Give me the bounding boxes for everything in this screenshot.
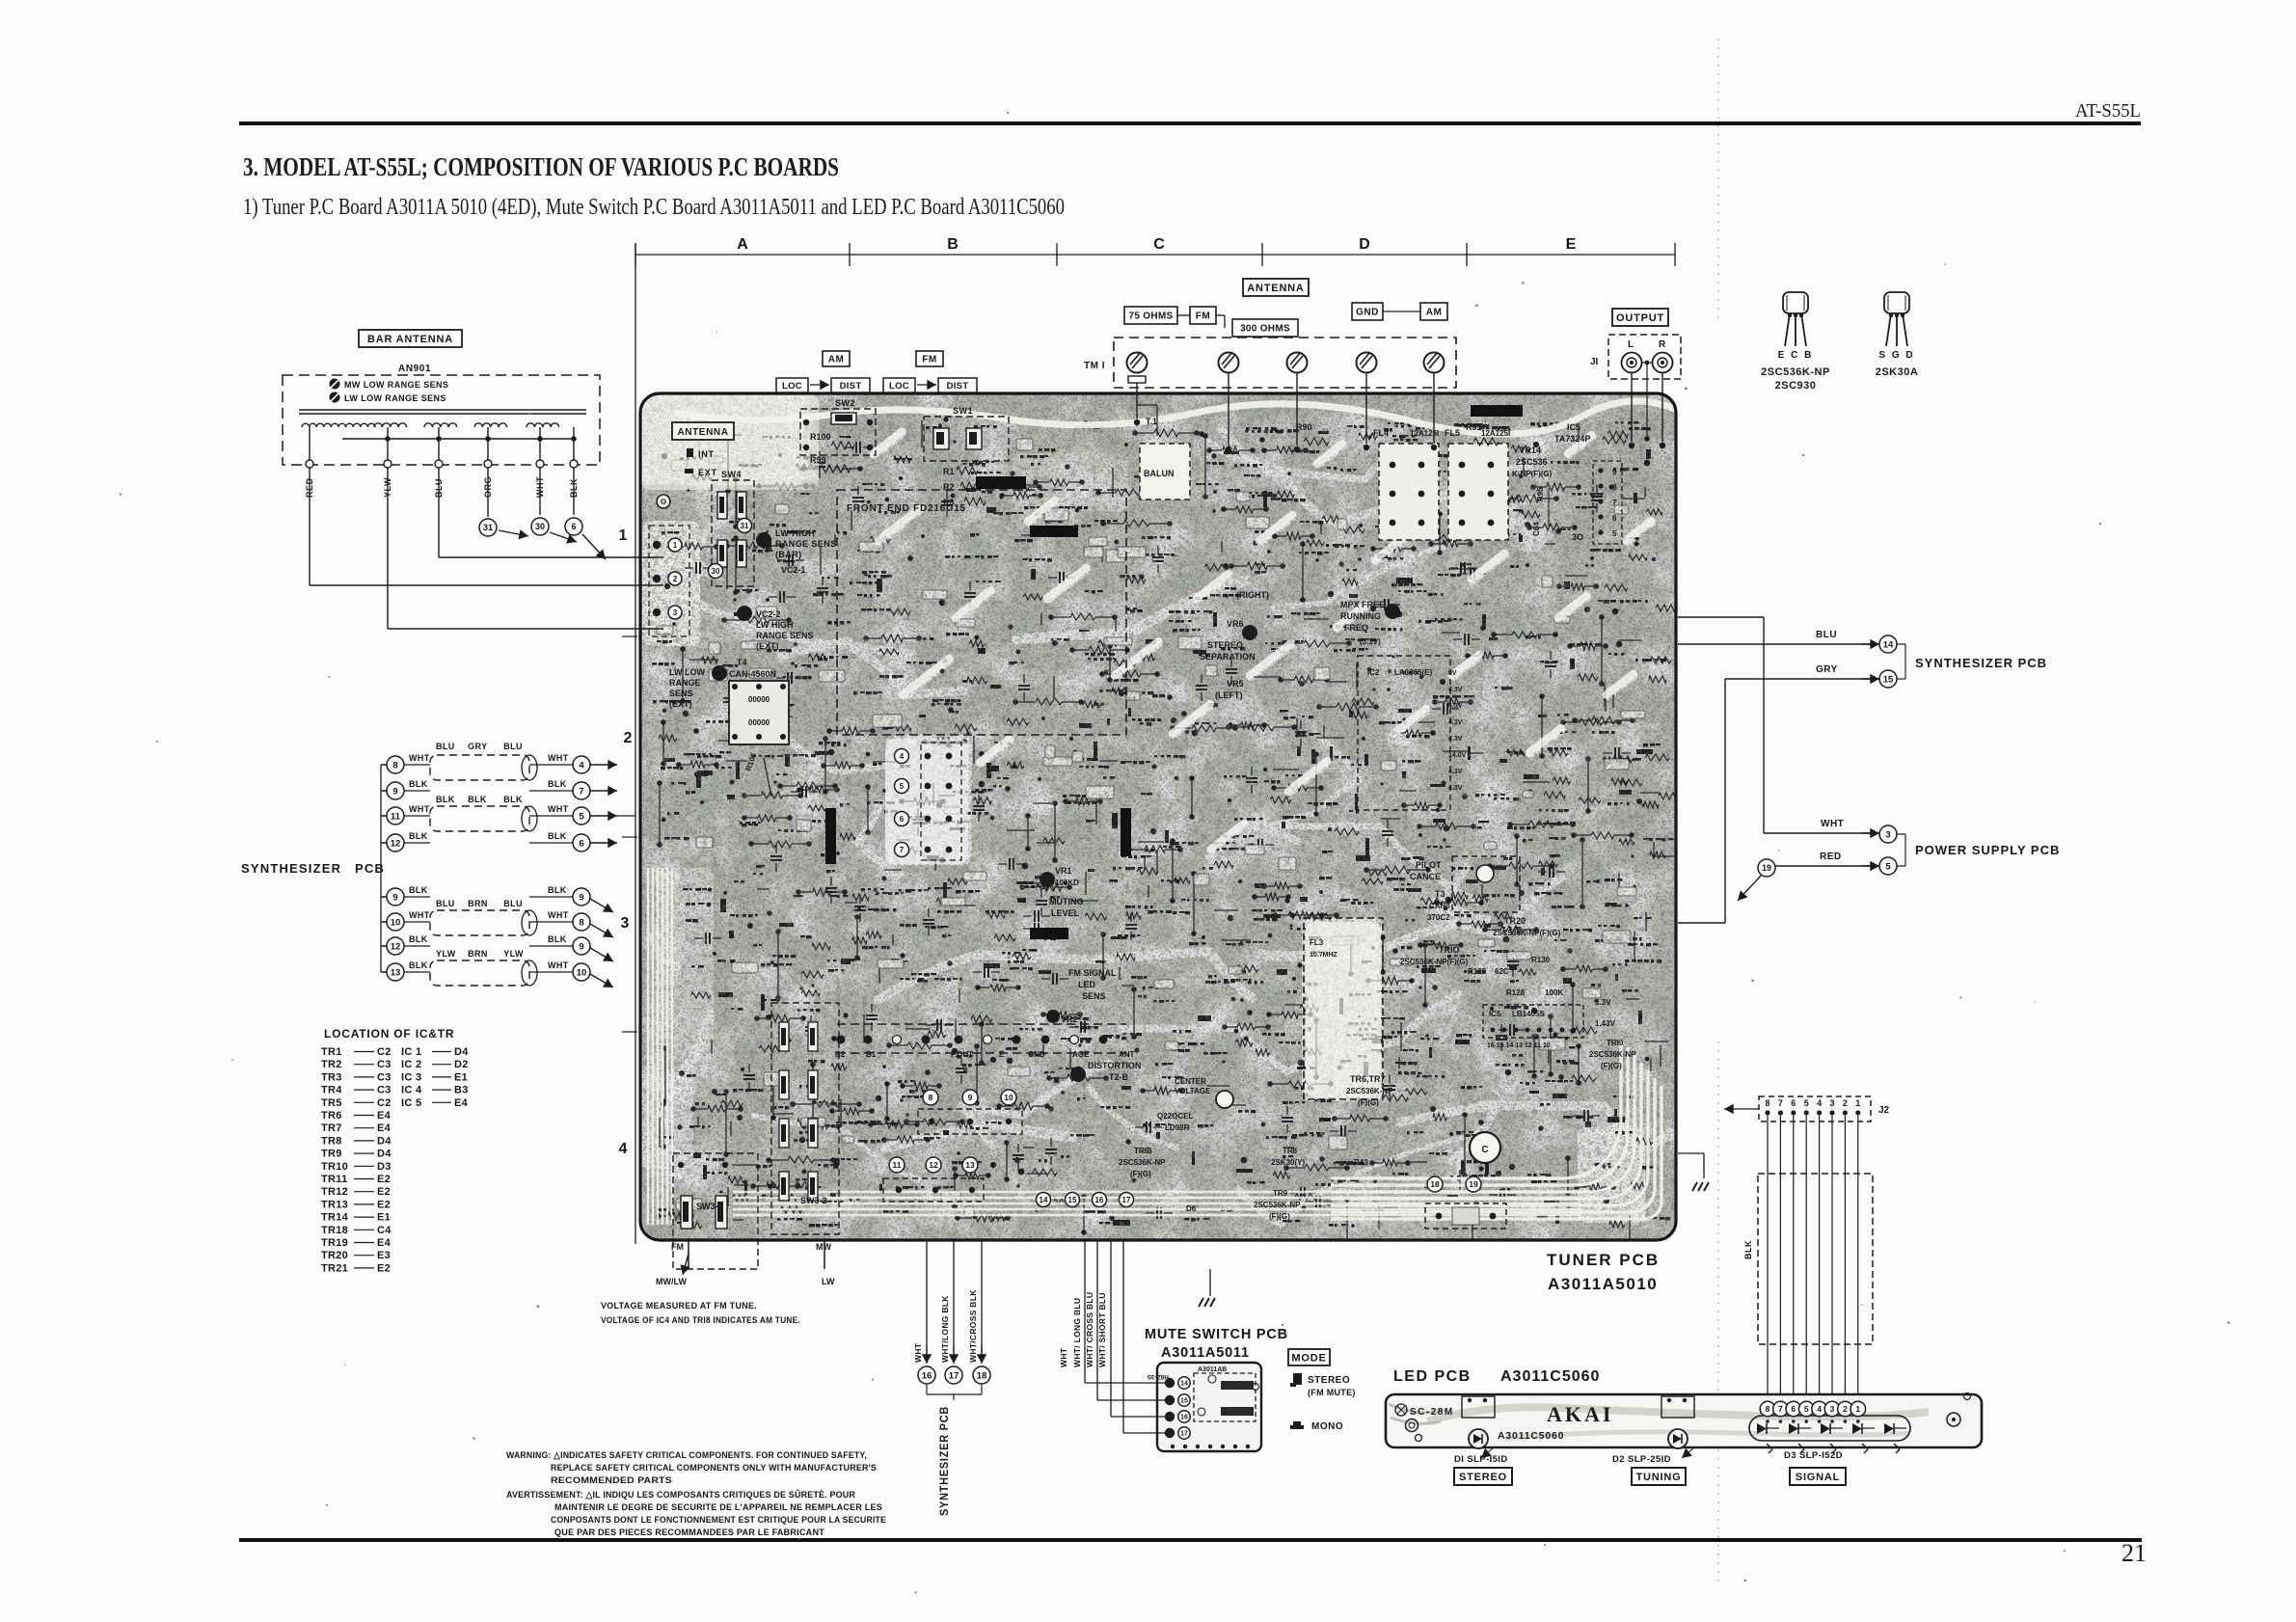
svg-text:16 15 14 13 12 11 10: 16 15 14 13 12 11 10 [1487,1042,1551,1049]
svg-text:5: 5 [900,782,905,791]
svg-text:E2: E2 [377,1199,391,1210]
svg-text:(RIGHT): (RIGHT) [1236,590,1269,600]
svg-text:1: 1 [1855,1404,1860,1414]
svg-text:BAR ANTENNA: BAR ANTENNA [367,334,453,345]
svg-text:VR2: VR2 [1061,1014,1078,1024]
svg-text:BLK: BLK [409,831,428,841]
svg-text:7: 7 [1778,1404,1783,1414]
svg-text:RED: RED [1820,852,1842,862]
svg-text:3: 3 [1829,1098,1834,1108]
svg-text:T.1: T.1 [1146,417,1157,426]
svg-text:E: E [1566,236,1577,253]
svg-text:4.3V: 4.3V [1448,703,1463,710]
svg-text:2SC536K-NP(F)(G): 2SC536K-NP(F)(G) [1400,958,1469,966]
svg-text:10: 10 [1004,1093,1013,1102]
svg-text:31: 31 [483,523,493,532]
svg-text:TR4: TR4 [321,1085,342,1096]
svg-text:FREQ: FREQ [1344,623,1368,633]
svg-text:AKAI: AKAI [1547,1402,1613,1426]
svg-text:R: R [1659,339,1666,350]
svg-text:S G D: S G D [1878,350,1914,361]
svg-text:15: 15 [1883,674,1894,685]
svg-text:3: 3 [1830,1404,1835,1414]
svg-text:3. MODEL AT-S55L; COMPOSITION: 3. MODEL AT-S55L; COMPOSITION OF VARIOUS… [243,152,839,181]
svg-text:OUTPUT: OUTPUT [1616,312,1664,324]
svg-text:MW: MW [816,1242,831,1252]
svg-text:(F)(G): (F)(G) [1269,1212,1290,1221]
svg-text:TM I: TM I [1084,361,1105,371]
svg-text:TR19: TR19 [321,1237,348,1249]
svg-text:5: 5 [1612,529,1617,538]
svg-text:WHT: WHT [1821,819,1844,829]
svg-text:FL4: FL4 [1373,428,1389,438]
svg-text:B1: B1 [866,1050,877,1059]
svg-text:LW LOW: LW LOW [669,667,705,677]
svg-text:4.3V: 4.3V [1448,769,1463,775]
svg-text:RANGE SENS: RANGE SENS [775,539,837,549]
svg-text:GND: GND [1356,308,1379,318]
svg-text:9: 9 [968,1093,973,1102]
svg-text:2SC536K-NP: 2SC536K-NP [1589,1050,1636,1059]
svg-text:4.3V: 4.3V [1448,785,1463,792]
svg-text:2: 2 [1843,1098,1848,1108]
svg-text:RECOMMENDED PARTS: RECOMMENDED PARTS [551,1475,672,1486]
svg-text:TR1: TR1 [321,1046,342,1058]
svg-text:3: 3 [673,608,678,617]
svg-text:R43: R43 [1354,1158,1368,1167]
svg-text:D2 SLP-25ID: D2 SLP-25ID [1612,1454,1671,1465]
svg-text:D6: D6 [1186,1204,1197,1213]
svg-text:2SC536K-NP: 2SC536K-NP [1254,1201,1301,1209]
svg-text:VR1: VR1 [1055,866,1072,876]
svg-text:WHT: WHT [409,804,430,814]
svg-text:BRN: BRN [468,949,488,959]
svg-text:WHT/ LONG BLU: WHT/ LONG BLU [1072,1298,1082,1367]
svg-text:DISTORTION: DISTORTION [1088,1061,1141,1070]
svg-text:BLU: BLU [436,742,455,751]
svg-text:BLK: BLK [548,885,567,895]
svg-text:R129: R129 [1468,967,1487,976]
svg-text:2SC536K-NP: 2SC536K-NP [1761,366,1830,378]
svg-text:3: 3 [1885,829,1890,840]
svg-text:BLK: BLK [409,960,428,970]
svg-text:(EXT): (EXT) [669,699,692,709]
svg-text:4: 4 [1817,1404,1822,1414]
svg-text:6: 6 [571,522,576,531]
svg-text:75 OHMS: 75 OHMS [1128,311,1173,322]
svg-text:D4: D4 [377,1135,392,1147]
svg-text:5: 5 [1885,861,1891,872]
svg-text:BLU: BLU [503,899,523,908]
svg-text:VOLTAGE OF IC4 AND TRI8 I: VOLTAGE OF IC4 AND TRI8 INDICATES AM TUN… [601,1315,800,1326]
svg-text:AT-S55L: AT-S55L [2075,100,2141,122]
svg-text:T3: T3 [1435,889,1445,899]
svg-text:14.0V: 14.0V [1448,752,1467,759]
svg-text:6: 6 [1791,1404,1796,1414]
svg-text:4.3V: 4.3V [1448,687,1463,693]
svg-text:TR7: TR7 [321,1122,342,1134]
svg-text:2: 2 [1843,1404,1848,1414]
svg-text:T4: T4 [737,658,747,667]
svg-text:TRIB: TRIB [1134,1147,1152,1155]
svg-text:2: 2 [624,730,633,746]
svg-text:5: 5 [1804,1404,1809,1414]
svg-text:7: 7 [1778,1098,1783,1108]
svg-text:1: 1 [1855,1098,1860,1108]
svg-text:BLK: BLK [548,831,567,841]
svg-text:BLK: BLK [468,795,487,804]
svg-text:TR5: TR5 [321,1097,342,1109]
svg-text:2SC536K-NP: 2SC536K-NP [1346,1087,1393,1095]
svg-text:(F)(G): (F)(G) [1601,1062,1622,1070]
svg-text:MONO: MONO [1311,1421,1343,1432]
svg-text:AVERTISSEMENT: △IL INDIQU L: AVERTISSEMENT: △IL INDIQU LES COMPOSANTS… [506,1489,855,1500]
svg-text:WHT: WHT [548,753,569,763]
svg-text:TR14: TR14 [321,1212,349,1224]
svg-text:D4: D4 [454,1046,469,1058]
svg-text:E2: E2 [377,1186,391,1198]
svg-text:YLW: YLW [436,949,456,959]
svg-text:SW3-2: SW3-2 [800,1196,827,1205]
svg-text:WARNING: △INDICATES SAFETY: WARNING: △INDICATES SAFETY CRITICAL COMP… [506,1450,867,1461]
svg-text:C4: C4 [377,1225,392,1236]
svg-text:C: C [1481,1145,1488,1155]
svg-text:TR9: TR9 [321,1149,342,1160]
svg-text:3.3V: 3.3V [1595,998,1611,1007]
svg-text:15: 15 [1068,1196,1077,1204]
svg-text:BRN: BRN [468,899,488,908]
svg-text:4: 4 [900,752,905,761]
svg-text:WHT: WHT [548,910,569,920]
svg-text:TR2: TR2 [321,1059,342,1070]
svg-text:6: 6 [1791,1098,1796,1108]
svg-text:TA7324P: TA7324P [1554,434,1590,444]
svg-text:E4: E4 [454,1097,469,1109]
svg-text:B: B [947,236,959,253]
svg-text:SW4: SW4 [721,470,742,479]
svg-text:4: 4 [619,1141,628,1157]
svg-text:AM: AM [1426,308,1443,318]
svg-text:QUE PAR DES PIECES RECOMMA: QUE PAR DES PIECES RECOMMANDEES PAR LE F… [554,1527,824,1538]
svg-text:VR5: VR5 [1227,679,1244,689]
svg-text:2SK30A: 2SK30A [1876,366,1919,378]
svg-text:TR13: TR13 [321,1199,348,1210]
svg-text:AM: AM [828,355,845,365]
svg-text:2SC930: 2SC930 [1775,380,1817,392]
svg-text:TRI9: TRI9 [1607,1039,1624,1047]
svg-text:19: 19 [1469,1179,1478,1189]
svg-text:AN901: AN901 [398,364,431,374]
svg-text:ANTENNA: ANTENNA [1247,283,1304,294]
svg-text:21: 21 [2121,1539,2147,1567]
svg-text:GRY: GRY [468,742,487,751]
svg-text:CONPOSANTS DONT LE FONCTION: CONPOSANTS DONT LE FONCTIONNEMENT EST CR… [551,1515,886,1526]
svg-text:LOC: LOC [889,381,909,392]
svg-text:SENS: SENS [669,689,693,698]
svg-text:16: 16 [1180,1415,1188,1421]
svg-text:A3011C5060: A3011C5060 [1498,1430,1564,1442]
svg-text:2SC536K-NP: 2SC536K-NP [1119,1158,1166,1167]
svg-text:12: 12 [391,838,401,849]
svg-text:MAINTENIR LE DEGRE DE SECU: MAINTENIR LE DEGRE DE SECURITE DE L'APPA… [554,1502,882,1513]
svg-text:TUNER PCB: TUNER PCB [1547,1251,1660,1269]
svg-text:18: 18 [977,1370,987,1381]
svg-text:31: 31 [741,522,749,530]
svg-text:TR8: TR8 [321,1135,342,1147]
svg-text:7: 7 [579,786,583,797]
svg-text:SW3-1: SW3-1 [696,1202,723,1211]
svg-text:1) Tuner P.C Board A3011A 5010: 1) Tuner P.C Board A3011A 5010 (4ED), Mu… [243,195,1065,220]
svg-text:STEREO: STEREO [1459,1472,1507,1483]
svg-text:DI SLP-I5ID: DI SLP-I5ID [1454,1454,1508,1465]
svg-text:C3: C3 [377,1085,392,1096]
svg-text:A: A [737,236,748,253]
svg-text:1: 1 [673,541,678,550]
svg-text:30: 30 [535,522,545,531]
svg-text:3O: 3O [1572,532,1583,542]
svg-text:BALUN: BALUN [1144,469,1175,478]
svg-text:BLK: BLK [548,779,567,789]
svg-text:TR12: TR12 [321,1186,348,1198]
svg-text:17: 17 [1180,1431,1188,1438]
svg-text:00000: 00000 [748,718,770,727]
svg-text:C2: C2 [377,1046,392,1058]
svg-text:J2: J2 [1878,1105,1890,1116]
svg-text:18: 18 [1430,1179,1440,1189]
svg-text:RUNNING: RUNNING [1340,611,1381,621]
svg-text:2: 2 [673,575,678,583]
svg-text:BLK: BLK [409,885,428,895]
svg-text:13: 13 [391,967,401,978]
svg-text:IC5: IC5 [1489,1010,1501,1018]
svg-text:A3011C5060: A3011C5060 [1500,1368,1600,1385]
svg-text:MUTING: MUTING [1049,897,1084,906]
svg-text:8: 8 [929,1093,933,1102]
svg-text:INT: INT [698,449,715,459]
svg-text:E2: E2 [377,1174,391,1185]
svg-text:VR6: VR6 [1227,619,1244,629]
svg-text:16: 16 [1095,1196,1104,1204]
svg-text:B3: B3 [454,1085,469,1096]
svg-text:R91: R91 [1466,422,1482,432]
svg-text:LB1405S: LB1405S [1512,1010,1545,1018]
svg-text:5: 5 [579,811,584,822]
svg-text:BLK: BLK [409,779,428,789]
svg-text:YLW: YLW [503,949,524,959]
svg-text:SYNTHESIZER PCB: SYNTHESIZER PCB [1915,656,2047,670]
svg-text:9: 9 [579,941,583,952]
svg-text:VOLTAGE MEASURED AT FM TUN: VOLTAGE MEASURED AT FM TUNE. [601,1301,757,1311]
svg-text:LOCATION OF IC&TR: LOCATION OF IC&TR [324,1027,454,1041]
svg-text:FL5: FL5 [1445,428,1460,438]
svg-text:8: 8 [392,760,397,770]
svg-text:100KD: 100KD [1055,879,1079,887]
svg-text:TR6,TR7: TR6,TR7 [1350,1074,1386,1084]
svg-text:100K: 100K [1545,988,1563,997]
svg-text:TR9: TR9 [1273,1189,1288,1198]
svg-text:16: 16 [922,1370,932,1381]
svg-text:JI: JI [1590,357,1599,367]
svg-text:MUTE SWITCH PCB: MUTE SWITCH PCB [1145,1327,1288,1342]
svg-text:SEPARATION: SEPARATION [1200,652,1256,662]
svg-text:IC 4: IC 4 [401,1085,422,1096]
svg-text:VOLTAGE: VOLTAGE [1175,1087,1211,1095]
svg-text:AGE: AGE [1072,1050,1090,1059]
svg-text:SW2: SW2 [835,398,855,408]
svg-text:(F)(G): (F)(G) [1358,1098,1379,1107]
svg-text:BLK: BLK [436,795,455,804]
svg-text:R130: R130 [1531,956,1551,964]
svg-text:TR21: TR21 [321,1262,348,1274]
svg-text:IC 2: IC 2 [401,1059,421,1070]
svg-text:10: 10 [391,917,401,928]
svg-text:D3 SLP-I52D: D3 SLP-I52D [1784,1450,1843,1461]
svg-text:R95: R95 [1536,487,1545,501]
svg-text:A3011AB: A3011AB [1198,1366,1227,1373]
svg-text:10.7MHZ: 10.7MHZ [1310,952,1338,959]
svg-text:D2: D2 [454,1059,469,1070]
svg-text:WHT: WHT [1059,1347,1068,1367]
svg-text:MPX FREE: MPX FREE [1340,600,1385,609]
svg-text:8: 8 [1765,1098,1769,1108]
svg-text:MW/LW: MW/LW [656,1277,687,1286]
svg-text:MODE: MODE [1291,1352,1326,1364]
svg-text:WHT/ SHORT BLU: WHT/ SHORT BLU [1097,1292,1107,1367]
svg-text:CAN-4560N: CAN-4560N [729,669,776,679]
svg-text:LD98R: LD98R [1165,1123,1190,1132]
svg-text:CAN8: CAN8 [1429,902,1450,910]
svg-text:6: 6 [1612,514,1617,523]
svg-text:9: 9 [1612,468,1617,476]
svg-text:BLK: BLK [503,795,523,804]
svg-text:1.43V: 1.43V [1595,1019,1616,1028]
svg-text:R99: R99 [810,455,826,465]
svg-text:FM SIGNAL: FM SIGNAL [1068,968,1117,978]
svg-text:PILOT: PILOT [1416,860,1442,870]
svg-text:WHT: WHT [548,804,569,814]
svg-text:EXT: EXT [698,468,717,477]
svg-text:SYNTHESIZER PCB: SYNTHESIZER PCB [939,1406,951,1516]
svg-text:370C2: 370C2 [1427,913,1450,922]
svg-text:2SK30(Y): 2SK30(Y) [1271,1158,1305,1167]
svg-text:8: 8 [1766,1404,1770,1414]
svg-text:E2: E2 [377,1262,391,1274]
svg-text:LW HIGH: LW HIGH [756,620,794,630]
svg-text:TUNING: TUNING [1636,1472,1682,1483]
svg-text:11: 11 [893,1160,902,1170]
svg-text:IC 1: IC 1 [401,1046,421,1058]
svg-text:BLU: BLU [1816,630,1837,640]
svg-text:TR20: TR20 [1504,916,1526,926]
svg-text:C3: C3 [377,1059,392,1070]
svg-text:WHT: WHT [409,910,430,920]
svg-text:(3.1V): (3.1V) [1360,637,1381,646]
svg-text:R90: R90 [1296,422,1312,432]
svg-text:B2: B2 [835,1050,846,1059]
svg-text:12A125I: 12A125I [1481,429,1510,438]
svg-text:L: L [1628,339,1634,350]
svg-text:STEREO: STEREO [1308,1375,1350,1386]
svg-text:A3011A5010: A3011A5010 [1548,1275,1658,1293]
svg-text:TR14: TR14 [1520,446,1541,455]
svg-text:LW HIGH: LW HIGH [775,528,815,538]
svg-text:E: E [999,1050,1005,1059]
svg-text:TR11: TR11 [321,1174,348,1185]
svg-text:FM: FM [1196,311,1210,322]
svg-text:LW LOW RANGE SENS: LW LOW RANGE SENS [344,393,446,403]
svg-text:WHT/ CROSS BLU: WHT/ CROSS BLU [1085,1292,1094,1367]
svg-text:C: C [1153,236,1165,253]
svg-text:LED: LED [1078,980,1096,989]
svg-text:SC-28M: SC-28M [1410,1407,1454,1418]
svg-text:ANT: ANT [1119,1050,1135,1059]
svg-text:T2-B: T2-B [1109,1072,1129,1082]
svg-text:E4: E4 [377,1122,392,1134]
svg-text:11: 11 [391,811,401,822]
svg-text:WHT/CROSS BLK: WHT/CROSS BLK [968,1289,978,1363]
svg-text:E1: E1 [454,1071,468,1083]
svg-text:D3: D3 [377,1161,392,1173]
svg-text:D4: D4 [377,1149,392,1160]
svg-text:E C B: E C B [1778,350,1814,361]
svg-text:SYNTHESIZER: SYNTHESIZER [241,861,341,876]
svg-text:8: 8 [579,917,583,928]
svg-text:VC2-2: VC2-2 [756,609,781,619]
svg-text:CANCE: CANCE [1410,872,1441,881]
svg-text:REPLACE SAFETY CRITICAL COM: REPLACE SAFETY CRITICAL COMPONENTS ONLY … [551,1463,877,1473]
svg-text:2SC536: 2SC536 [1516,457,1548,467]
svg-text:IC 5: IC 5 [401,1097,421,1109]
svg-text:LEVEL: LEVEL [1051,908,1080,918]
svg-text:9: 9 [392,892,397,903]
svg-text:IC5: IC5 [1567,422,1580,432]
svg-text:8: 8 [1612,483,1617,492]
svg-text:6: 6 [900,815,905,824]
svg-text:SW1: SW1 [953,406,973,416]
svg-text:TR18: TR18 [321,1225,348,1236]
svg-text:DIST: DIST [840,381,862,392]
svg-text:SIGNAL: SIGNAL [1796,1472,1840,1483]
svg-text:4.3V: 4.3V [1448,736,1463,743]
svg-text:K-NP(F)(G): K-NP(F)(G) [1512,470,1553,478]
svg-text:7: 7 [1612,499,1617,507]
svg-text:BLK: BLK [1743,1240,1753,1259]
svg-text:17: 17 [1122,1196,1131,1204]
svg-text:0V: 0V [1448,670,1457,677]
svg-text:R1: R1 [943,467,955,476]
svg-text:GND: GND [1028,1050,1045,1059]
svg-text:3: 3 [621,915,630,932]
svg-text:R100: R100 [810,432,831,442]
svg-text:12: 12 [391,941,401,952]
svg-text:C3: C3 [377,1071,392,1083]
svg-text:TR6: TR6 [321,1110,342,1122]
svg-text:H8Z-3S: H8Z-3S [1147,1373,1169,1380]
svg-text:17: 17 [949,1370,959,1381]
svg-text:A3011A5011: A3011A5011 [1161,1345,1250,1361]
svg-text:WHT/LONG BLK: WHT/LONG BLK [940,1295,950,1363]
svg-text:MW LOW RANGE SENS: MW LOW RANGE SENS [344,380,448,390]
svg-text:BLU: BLU [503,742,523,751]
svg-text:Q22OCEL: Q22OCEL [1157,1112,1193,1121]
svg-text:(EXT): (EXT) [756,641,779,651]
svg-text:STEREO: STEREO [1207,640,1243,650]
svg-text:12: 12 [929,1160,938,1170]
svg-text:13: 13 [965,1160,975,1170]
svg-text:LA3365(E): LA3365(E) [1394,668,1432,677]
svg-text:12A125I: 12A125I [1410,429,1439,438]
svg-text:F.OUT: F.OUT [951,1050,973,1059]
